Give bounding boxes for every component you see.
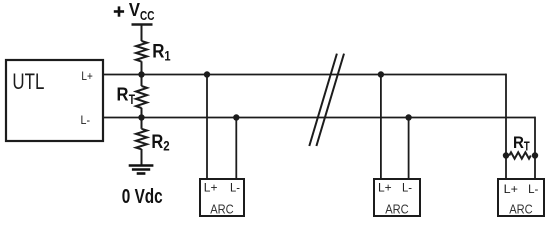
svg-text:0 Vdc: 0 Vdc: [122, 185, 163, 208]
junction dot RT right left end: [503, 152, 509, 158]
wire L+ bus: [103, 74, 506, 76]
box ARC3: [498, 179, 544, 216]
svg-text:L-: L-: [230, 180, 240, 194]
wire ARC1 L- pin: [235, 118, 237, 180]
svg-text:R: R: [151, 132, 163, 153]
svg-text:L-: L-: [528, 182, 538, 196]
resistor RT (right, terminator): [509, 152, 531, 158]
svg-text:L+: L+: [81, 69, 92, 83]
power VCC terminal bar: [132, 23, 153, 26]
svg-text:L+: L+: [204, 180, 218, 194]
svg-text:V: V: [129, 0, 141, 20]
svg-text:R: R: [152, 42, 164, 63]
junction dot rail / L+ bus: [138, 71, 144, 77]
svg-text:UTL: UTL: [12, 69, 44, 94]
wire L+ bus right drop to ARC3 L+ pin: [505, 74, 507, 180]
wire R1 to L+ bus: [141, 61, 143, 86]
junction dot ARC2 L- / L- bus: [405, 114, 411, 120]
svg-text:L+: L+: [378, 180, 392, 194]
junction dot rail / L- bus: [138, 114, 144, 120]
wire R2 to ground: [141, 149, 143, 166]
svg-text:1: 1: [164, 48, 170, 64]
power +VCC label: [114, 0, 155, 23]
junction dot ARC1 L- / L- bus: [233, 114, 239, 120]
svg-text:CC: CC: [140, 8, 155, 23]
svg-text:R: R: [513, 133, 524, 152]
svg-text:2: 2: [163, 138, 170, 154]
wire RT to L- bus: [141, 108, 143, 129]
svg-text:ARC: ARC: [509, 202, 533, 217]
box U1 UTL: [6, 60, 103, 141]
svg-text:T: T: [129, 91, 136, 107]
svg-text:L-: L-: [402, 180, 412, 194]
svg-text:R: R: [117, 84, 129, 105]
resistor R2: [136, 129, 147, 150]
box ARC2: [374, 179, 420, 216]
wire ARC2 L+ pin: [380, 75, 382, 180]
junction dot RT right right end: [532, 152, 538, 158]
svg-text:L-: L-: [81, 113, 91, 127]
resistor R1: [136, 41, 147, 62]
wire ARC2 L- pin: [408, 118, 410, 180]
wire ARC1 L+ pin: [206, 75, 208, 180]
wire L- bus right drop to ARC3 L- pin: [534, 117, 536, 180]
junction dot ARC1 L+ / L+ bus: [204, 71, 210, 77]
wire L- bus: [103, 117, 535, 119]
ground: [129, 166, 154, 174]
break slash 1: [309, 54, 337, 146]
junction dot ARC2 L+ / L+ bus: [378, 71, 384, 77]
box ARC1: [200, 179, 244, 216]
svg-text:ARC: ARC: [385, 202, 409, 217]
svg-text:L+: L+: [504, 182, 518, 196]
wire VCC bar to R1: [141, 25, 143, 42]
resistor RT (left): [136, 86, 147, 108]
svg-text:T: T: [524, 138, 530, 153]
break slash 2: [316, 54, 344, 146]
svg-text:ARC: ARC: [210, 202, 234, 217]
